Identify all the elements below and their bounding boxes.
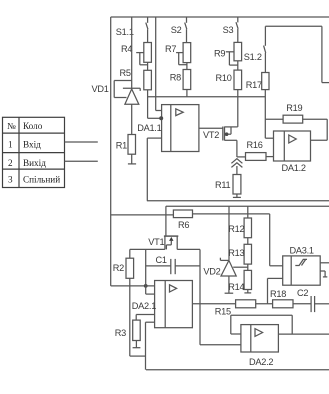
wire bottom rail <box>146 369 329 371</box>
svg-text:S1.2: S1.2 <box>244 52 262 62</box>
svg-text:R18: R18 <box>270 289 286 299</box>
wire to DA1.1 input 1 <box>155 17 157 111</box>
svg-text:R6: R6 <box>178 220 189 230</box>
diode VD2 <box>203 258 236 294</box>
svg-text:Спільний: Спільний <box>23 174 60 184</box>
transistor VT2 <box>199 127 238 158</box>
svg-text:VT2: VT2 <box>203 130 219 140</box>
wire DA3.1 input 2 <box>268 278 283 303</box>
svg-text:Коло: Коло <box>23 121 43 131</box>
svg-text:DA2.1: DA2.1 <box>132 301 156 311</box>
svg-text:DA1.2: DA1.2 <box>282 163 306 173</box>
op-amp DA2.2 <box>241 325 329 367</box>
resistor R18 <box>270 289 311 308</box>
svg-text:R7: R7 <box>165 44 176 54</box>
switch S3 <box>223 17 239 42</box>
svg-text:DA1.1: DA1.1 <box>137 123 161 133</box>
resistor R8 <box>170 70 191 97</box>
wire branch to DA2.1 input 2 <box>145 249 147 294</box>
svg-text:Вихід: Вихід <box>23 158 46 168</box>
svg-text:DA2.2: DA2.2 <box>249 357 273 367</box>
svg-text:R16: R16 <box>247 140 263 150</box>
switch S1.2 <box>244 26 329 82</box>
wire DA2.2 feedback <box>231 315 292 334</box>
svg-text:C1: C1 <box>156 255 167 265</box>
wire VD2 column <box>228 206 230 260</box>
svg-text:R15: R15 <box>215 307 231 317</box>
svg-text:R10: R10 <box>216 73 232 83</box>
svg-text:R1: R1 <box>116 141 127 151</box>
wire DA2.1 input 2 <box>136 315 154 323</box>
svg-text:R12: R12 <box>228 224 244 234</box>
wire VT1 drain to C1 <box>177 248 200 250</box>
wire bus <box>148 96 266 98</box>
svg-text:R5: R5 <box>120 68 131 78</box>
svg-text:R9: R9 <box>214 49 225 59</box>
resistor R2 <box>113 249 134 278</box>
connector table <box>3 117 65 187</box>
wire DA2.2 input 2 <box>200 344 241 346</box>
op-amp DA1.1 <box>137 105 199 152</box>
wire R5 bottom to DA1.1 input 2 <box>147 90 149 119</box>
resistor R6 <box>111 206 270 236</box>
diode VD1 <box>92 17 141 135</box>
wire left edge <box>110 17 112 286</box>
node DA1.1 input 2 dot <box>159 116 163 120</box>
svg-text:R19: R19 <box>286 103 302 113</box>
resistor R7 <box>165 43 191 70</box>
svg-text:R13: R13 <box>228 248 244 258</box>
wire DA1.1 input 3 to box bottom <box>147 137 161 139</box>
resistor R10 <box>216 70 242 127</box>
svg-text:VT1: VT1 <box>148 237 164 247</box>
wire lower box top <box>166 205 329 207</box>
svg-text:R14: R14 <box>228 282 244 292</box>
resistor R5 <box>120 68 152 90</box>
svg-text:1: 1 <box>8 140 13 150</box>
svg-text:R2: R2 <box>113 263 124 273</box>
comparator DA3.1 <box>283 246 329 286</box>
resistor R16 <box>237 140 274 160</box>
wire R2 bottom down <box>129 278 131 356</box>
wire VT1 source rail <box>130 248 165 250</box>
resistor R11 <box>215 166 241 197</box>
resistor R14 <box>228 270 251 293</box>
capacitor C1 <box>146 255 200 274</box>
capacitor C2 <box>297 288 329 312</box>
svg-text:Вхід: Вхід <box>23 140 41 150</box>
wire output stub <box>65 160 98 162</box>
node chevrons <box>231 159 242 168</box>
svg-text:VD1: VD1 <box>92 84 109 94</box>
resistor R3 <box>115 315 141 348</box>
svg-text:DA3.1: DA3.1 <box>290 246 314 256</box>
resistor R13 <box>228 244 251 270</box>
wire VD2 to R13 R14 junction <box>233 266 248 268</box>
transistor VT1 <box>148 236 178 249</box>
resistor R19 <box>265 103 327 140</box>
op-amp DA1.2 <box>265 131 327 173</box>
wire input stub <box>65 141 98 143</box>
svg-text:R8: R8 <box>170 73 181 83</box>
resistor R9 <box>214 42 242 70</box>
resistor R1 <box>116 135 136 164</box>
svg-text:2: 2 <box>8 158 13 168</box>
switch S1.1 <box>116 17 148 43</box>
switch S2 <box>171 17 187 43</box>
svg-text:S3: S3 <box>223 25 234 35</box>
svg-text:R17: R17 <box>246 80 262 90</box>
svg-text:C2: C2 <box>297 288 308 298</box>
svg-text:№: № <box>7 121 16 131</box>
wire upper box bottom <box>147 200 329 202</box>
svg-text:R11: R11 <box>215 180 231 190</box>
svg-text:S2: S2 <box>171 25 182 35</box>
svg-text:3: 3 <box>8 174 13 184</box>
wire output node vertical <box>199 249 201 344</box>
resistor R17 <box>246 73 269 139</box>
wire R6 node to DA3.1 input 1 <box>270 214 283 266</box>
resistor R15 <box>215 300 273 317</box>
resistor R12 <box>228 206 251 244</box>
svg-text:VD2: VD2 <box>203 267 220 277</box>
resistor R4 <box>121 43 151 71</box>
svg-text:R3: R3 <box>115 328 126 338</box>
wire top rail <box>111 16 329 18</box>
op-amp DA2.1 <box>132 281 236 328</box>
svg-text:R4: R4 <box>121 44 132 54</box>
wire left edge to DA2.1 pin 1 <box>111 285 155 287</box>
